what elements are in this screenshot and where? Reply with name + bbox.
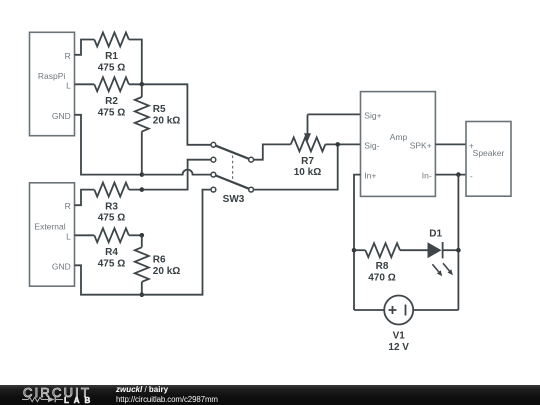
node F junction (R7 right / Sig-) <box>335 142 340 147</box>
node C junction (R3 output) <box>140 187 145 192</box>
block Speaker <box>466 122 511 197</box>
svg-text:SW3: SW3 <box>223 194 245 205</box>
svg-text:R: R <box>65 51 71 61</box>
wire Amp SPK+ to Speaker + <box>435 143 466 145</box>
logo CIRCUIT <box>23 385 91 400</box>
wire RaspPi pin L to R2 <box>75 83 95 85</box>
node D junction (R4 / R6 top) <box>140 233 145 238</box>
svg-text:R2: R2 <box>105 96 118 107</box>
svg-text:Sig-: Sig- <box>364 141 379 151</box>
svg-text:475 Ω: 475 Ω <box>98 107 125 118</box>
svg-text:L: L <box>66 231 71 241</box>
LED D1 <box>428 228 459 276</box>
wire switch common 1 to R7 left <box>254 144 291 159</box>
svg-text:R6: R6 <box>153 254 166 265</box>
svg-text:475 Ω: 475 Ω <box>98 213 125 224</box>
potentiometer R7 <box>291 114 326 178</box>
wire External GND to node E to switch throw 2b <box>75 190 212 295</box>
svg-text:V1: V1 <box>393 330 406 341</box>
node E junction (R6 bottom / ext gnd) <box>140 292 145 297</box>
node G junction (In- rail) <box>456 172 461 177</box>
wire R7 right to Amp Sig- <box>325 143 360 145</box>
voltage source V1 <box>354 296 458 353</box>
svg-text:R: R <box>65 201 71 211</box>
resistor R1 <box>94 33 129 74</box>
node I junction (D1 cathode rail) <box>456 248 461 253</box>
footer bar <box>0 385 540 405</box>
svg-text:475 Ω: 475 Ω <box>98 258 125 269</box>
credit line <box>116 385 168 394</box>
wire R7 wiper to Amp Sig+ <box>308 113 361 115</box>
wire switch common 2 to R7 right node <box>254 144 338 189</box>
wire R4 right lead <box>129 234 142 236</box>
resistor R2 <box>94 77 129 118</box>
svg-text:12 V: 12 V <box>388 342 409 353</box>
svg-text:475 Ω: 475 Ω <box>98 63 125 74</box>
svg-text:20 kΩ: 20 kΩ <box>153 116 180 127</box>
svg-text:R8: R8 <box>376 261 389 272</box>
switch SW3 <box>211 142 254 205</box>
svg-text:In-: In- <box>422 171 432 181</box>
node H junction (R8 left) <box>352 248 357 253</box>
wire RaspPi pin R to R1 <box>75 40 95 55</box>
wire RaspPi GND to node B <box>75 115 140 175</box>
svg-text:GND: GND <box>52 111 71 121</box>
svg-text:External: External <box>34 221 65 231</box>
svg-text:20 kΩ: 20 kΩ <box>153 266 180 277</box>
resistor R6 <box>135 235 180 294</box>
block External <box>30 183 75 286</box>
svg-text:R4: R4 <box>105 247 118 258</box>
url line <box>116 395 218 404</box>
svg-text:-: - <box>470 171 473 181</box>
resistor R8 <box>354 243 428 283</box>
resistor R5 <box>135 84 180 174</box>
resistor R4 <box>94 228 129 269</box>
svg-text:L: L <box>66 80 71 90</box>
svg-text:R3: R3 <box>105 201 118 212</box>
node A junction <box>140 82 145 87</box>
wire node B to switch throw 2a with hop <box>142 170 211 175</box>
block Amp <box>361 92 436 197</box>
svg-text:SPK+: SPK+ <box>410 141 432 151</box>
wire In- right rail down <box>457 175 459 310</box>
wire Amp In+ down left rail <box>354 175 361 310</box>
wire External pin L to R4 <box>75 234 95 236</box>
svg-text:R1: R1 <box>105 51 118 62</box>
wire External pin R to R3 <box>75 190 95 206</box>
wire node A to switch feed <box>129 84 211 145</box>
wire R3 node to switch throw 1b <box>129 160 211 190</box>
svg-text:Amp: Amp <box>390 132 408 142</box>
svg-text:In+: In+ <box>364 171 376 181</box>
wire Amp In- to Speaker - <box>435 174 466 176</box>
svg-text:R5: R5 <box>153 104 166 115</box>
svg-text:GND: GND <box>52 262 71 272</box>
logo waveform <box>22 395 68 405</box>
resistor R3 <box>94 183 129 224</box>
svg-text:D1: D1 <box>429 228 442 239</box>
svg-text:RaspPi: RaspPi <box>38 71 66 81</box>
svg-text:Sig+: Sig+ <box>364 111 381 121</box>
node B junction (R5 bottom / gnd wire) <box>140 172 145 177</box>
block RaspPi <box>30 32 75 135</box>
svg-text:10 kΩ: 10 kΩ <box>294 167 321 178</box>
svg-text:Speaker: Speaker <box>473 148 505 158</box>
logo LAB <box>64 396 95 405</box>
wire R1 right down to node L <box>129 40 142 85</box>
svg-text:R7: R7 <box>301 156 314 167</box>
svg-text:+: + <box>469 140 474 150</box>
svg-text:470 Ω: 470 Ω <box>368 273 395 284</box>
